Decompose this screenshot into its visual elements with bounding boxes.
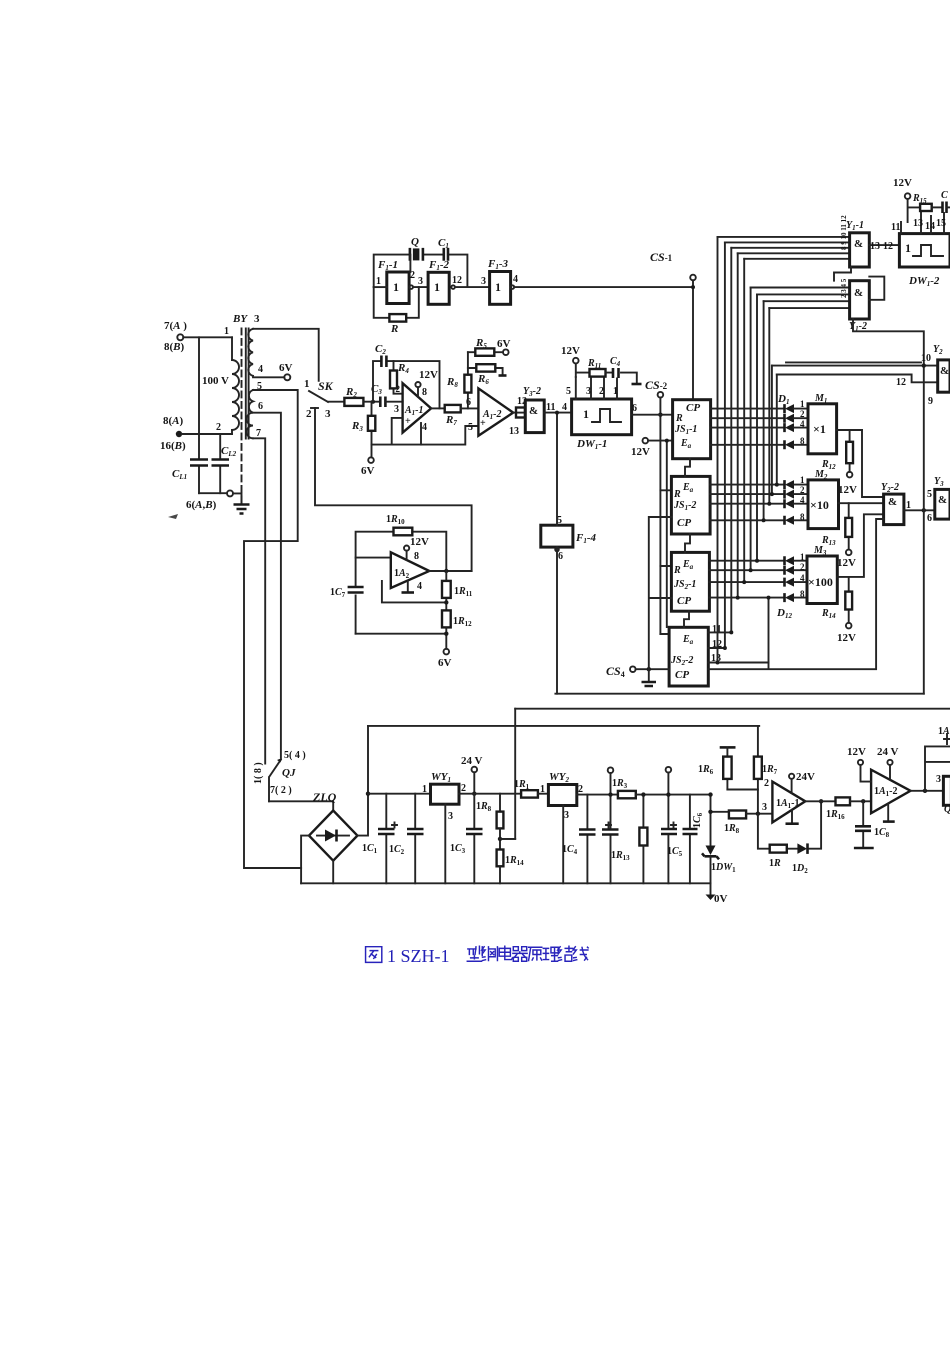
svg-text:M3: M3 [813,545,827,557]
op-amp 1A2 feedback loop [356,532,447,634]
svg-text:C2: C2 [375,343,386,356]
node junction after R2 [371,400,375,404]
bus vertical V7 [756,294,758,560]
wire A1-1 pin4 to bottom rail [420,423,422,445]
svg-text:DW1-2: DW1-2 [908,275,940,288]
svg-text:Y1-1: Y1-1 [846,220,864,232]
wire tap6 long route to bottom left [244,390,301,868]
svg-text:1: 1 [613,386,618,397]
bus vertical V4 [737,253,739,597]
terminal 12V DW1-1 [561,345,590,377]
svg-text:3: 3 [481,276,486,287]
bus vertical V8 [763,301,765,520]
wire Y1-1 output to DW1-2 [869,244,899,246]
svg-text:1: 1 [422,784,427,795]
terminal CS-1 [650,250,696,280]
resistor 1R16 [826,797,871,821]
terminal 24V 1A1-1 [789,771,815,793]
svg-text:JS2-1: JS2-1 [673,579,696,591]
wire ZLQ bottom corner [332,861,334,884]
diodes D9-D12 [785,556,795,602]
svg-text:R7: R7 [445,414,457,427]
svg-text:&: & [940,365,949,377]
svg-text:1A1-2: 1A1-2 [874,786,898,798]
svg-text:1: 1 [583,407,589,421]
svg-text:&: & [888,496,897,508]
svg-text:1C8: 1C8 [874,827,890,839]
svg-text:R15: R15 [912,193,927,205]
wire WY1 output rail [459,793,521,795]
svg-text:12V: 12V [893,177,912,189]
resistor 1R11 [442,571,473,610]
svg-text:11: 11 [891,222,900,233]
wire 1A1-2 output [911,790,944,792]
svg-text:1R14: 1R14 [505,855,524,867]
bus vertical V6 [750,288,752,571]
wire SK arm to R2 [328,401,344,403]
svg-text:JS2-2: JS2-2 [670,655,693,667]
svg-text:1: 1 [800,475,805,485]
terminal 6V transformer tap [253,362,293,380]
svg-text:WY1: WY1 [431,771,451,784]
svg-text:Ea: Ea [680,438,692,450]
svg-text:8 9 10 11 12: 8 9 10 11 12 [840,215,848,250]
wire WY2 output rail [577,794,618,796]
capacitor 1C2 [389,794,424,884]
svg-text:JS1-1: JS1-1 [674,424,697,436]
resistor R4 [390,361,409,394]
svg-text:R8: R8 [446,376,458,389]
capacitor C_L1 [172,460,208,482]
ground [233,493,250,513]
svg-text:&: & [938,494,947,506]
capacitor C top right edge [941,190,950,213]
svg-text:0V: 0V [714,893,728,905]
svg-text:1C1: 1C1 [362,843,378,855]
wire R2 to C3 [363,401,380,403]
gate Y2-1 [933,344,950,392]
svg-text:12V: 12V [847,746,866,758]
resistor 1R8 [724,811,772,836]
svg-text:8: 8 [800,589,805,599]
wire WY1 input rail [368,793,431,795]
svg-text:Y2: Y2 [933,344,943,356]
capacitor unlabeled with terminal [602,767,619,883]
svg-text:BY: BY [232,313,248,325]
svg-text:2: 2 [216,422,221,433]
bus vertical V10 [771,366,773,495]
DW1-1 top pin stubs [566,377,618,399]
svg-text:100 V: 100 V [202,375,229,387]
svg-text:7( 2 ): 7( 2 ) [270,785,292,796]
resistor 1R10 [386,514,412,535]
svg-text:6: 6 [632,403,637,414]
svg-text:4: 4 [800,419,805,429]
svg-text:4: 4 [417,581,422,592]
gate F1-1 [374,255,428,304]
svg-text:1A1-1: 1A1-1 [776,798,800,810]
wire oscillator bottom branch [374,287,419,318]
diodes D1-D4 [785,404,795,449]
ground stub 1A2 pin4 [402,581,423,593]
output rows JS2-1 to diodes [709,561,784,598]
wire jog JS2-1 to JS2-2 [684,611,689,627]
svg-text:5: 5 [566,386,571,397]
wire Y2-2 output to Y3-1 [904,509,935,511]
svg-text:2: 2 [396,384,401,394]
wire output loop up right [925,746,950,790]
svg-text:1C3: 1C3 [450,843,466,855]
svg-text:15: 15 [936,218,946,229]
svg-text:1 SZH-1: 1 SZH-1 [387,946,450,966]
capacitor C2 [375,343,386,367]
terminal 6V below R3 [361,445,375,477]
svg-text:1R: 1R [769,858,781,869]
wire QJ common to ZLQ [269,801,333,810]
svg-text:+: + [405,416,411,427]
wire ZLQ right corner to rails [357,726,368,836]
svg-text:4: 4 [258,364,263,375]
wire feedback divider vertical [500,709,515,839]
bus vertical V1 [717,237,719,663]
svg-text:D1: D1 [777,393,789,406]
svg-text:1C2: 1C2 [389,844,405,856]
svg-text:6: 6 [258,401,263,412]
monostable DW1-2 [899,234,950,288]
resistor 1R14 [497,850,525,884]
wire Y3-2/DW1-1 node down to F1-4 [556,413,558,526]
resistor R14 [821,577,856,644]
wire M2 output to Y2-2 [839,502,884,504]
svg-text:1R8: 1R8 [724,823,740,835]
svg-text:CP: CP [686,402,700,414]
svg-text:&: & [529,405,538,417]
resistor R8 [446,352,471,408]
caption 图1 SZH-1 型继电器原理结线 [366,946,589,966]
svg-text:CS-1: CS-1 [650,250,673,264]
wire jog JS1-1 to JS1-2 [685,459,690,477]
ground CS4 [642,669,657,686]
svg-text:CL1: CL1 [172,468,187,481]
svg-text:5( 4 ): 5( 4 ) [284,750,306,761]
resistor 1R1 [514,779,548,798]
svg-text:6: 6 [927,513,932,524]
svg-text:&: & [854,287,863,299]
monostable DW1-1 [572,399,637,451]
svg-text:10: 10 [921,353,931,364]
wire feedback top branch [373,361,440,408]
wire M1 output to Y2-2 [862,430,884,497]
svg-text:7(A ): 7(A ) [164,320,187,332]
svg-text:CS-2: CS-2 [645,378,668,392]
counter JS2-1 [671,552,709,611]
svg-text:5: 5 [927,489,932,500]
terminal 12V JS [631,438,673,458]
svg-text:F1-1: F1-1 [377,259,398,272]
svg-text:12V: 12V [837,557,856,569]
bus vertical V5 [743,259,745,582]
gate Y3-2 [523,386,555,433]
svg-text:R13: R13 [821,535,836,547]
svg-text:JS1-2: JS1-2 [673,500,696,512]
terminal 12V DW1-2 [893,177,920,222]
terminal CS-2 [645,378,668,398]
resistor R5 [468,337,503,356]
terminal 12V 1A1-2 [847,746,871,782]
svg-text:6V: 6V [361,465,375,477]
resistor R15 [912,193,941,211]
svg-text:24 V: 24 V [461,755,483,767]
svg-text:1R12: 1R12 [453,616,472,628]
capacitor 1C8 [854,801,890,848]
decoder M3 x100 [800,545,837,604]
svg-text:6V: 6V [497,338,511,350]
transformer secondary lower winding [247,390,263,439]
capacitor 1C6 [683,795,705,884]
wire 1A2 bottom rail [356,633,447,635]
capacitor C_L2 [212,434,237,493]
terminal 6V R5 [497,338,511,355]
gate Y1-2 [840,278,869,333]
capacitor 1C7 [330,587,364,599]
svg-text:3: 3 [254,313,260,325]
svg-text:1D2: 1D2 [792,863,808,875]
svg-text:&: & [854,238,863,250]
terminal 12V 1A2 [404,536,429,562]
terminal 24V WY1 [461,755,483,796]
bottom rail of A1 stage [372,426,479,445]
svg-text:24 V: 24 V [877,746,899,758]
svg-text:2: 2 [599,386,604,397]
svg-text:F1-2: F1-2 [428,259,450,272]
svg-text:12V: 12V [410,536,429,548]
svg-text:1R3: 1R3 [612,778,628,790]
svg-text:1: 1 [224,326,229,337]
svg-text:6V: 6V [279,362,293,374]
wire R7 to A1-2 [461,407,479,409]
svg-text:1R8: 1R8 [476,801,492,813]
svg-text:12V: 12V [561,345,580,357]
resistor 1R6 [698,747,758,789]
svg-text:R3: R3 [351,420,363,433]
capacitor 1C1 [362,794,397,884]
svg-text:12V: 12V [631,446,650,458]
svg-text:2: 2 [800,485,805,495]
svg-text:2: 2 [800,562,805,572]
svg-text:12: 12 [883,241,893,252]
transformer core dashed line [241,328,243,503]
bus vertical V3 [730,248,732,633]
wire 0V bottom bus [301,883,710,894]
op-amp 1A2 [391,552,430,588]
feedback loop 1R 1D2 [758,799,823,875]
transformer BY primary terminal 7(A)/8(B) [164,320,187,353]
svg-text:QJ: QJ [282,767,296,779]
svg-text:13: 13 [870,241,880,252]
wire 1A2 output [429,570,471,572]
svg-text:12V: 12V [838,484,857,496]
svg-text:CS4: CS4 [606,664,625,679]
wire tap3 to SK contact1 [253,329,319,381]
resistor R3 [351,402,375,445]
capacitor C4 [606,356,642,384]
wire DW1-1 output to JS1-1 [632,414,673,416]
svg-text:1: 1 [800,552,805,562]
svg-text:M1: M1 [814,393,827,405]
bus vertical V9 [768,308,770,504]
counter JS1-2 [671,476,710,534]
svg-text:1: 1 [905,241,911,255]
terminal 24V 1A1-2 [877,746,899,780]
svg-text:12: 12 [452,275,462,286]
resistor R2 [344,386,363,406]
svg-text:1: 1 [434,280,440,294]
zener diode 1DW1 [702,792,736,883]
wire F1-3 output to CS-1 [514,286,693,288]
svg-text:8: 8 [800,512,805,522]
transformer core double line [246,328,249,438]
resistor R12 [821,430,862,496]
svg-text:F1-4: F1-4 [575,532,597,545]
wire R bus taps to JS blocks [660,490,671,634]
decoder M1 x1 [800,393,837,454]
svg-text:Ea: Ea [682,482,694,494]
svg-text:1R16: 1R16 [826,809,845,821]
resistor 1R3 [612,778,711,798]
gate Y2-2 [881,482,911,525]
regulator WY1 [422,771,466,883]
capacitor C1 [438,237,449,261]
wire Y1-2 bottom route to Y2 region [853,319,924,694]
wire Y1-2 right loop [869,277,884,300]
wire rail branch to 1R8 [711,811,729,813]
svg-text:1DW1: 1DW1 [711,862,736,874]
op-amp A1-1 [394,383,431,433]
resistor R6 [468,364,507,386]
svg-text:1R7: 1R7 [762,764,778,776]
gate Y1-1 [840,215,869,267]
bus vertical V11 [776,375,778,485]
wire jog Y1-1 to Y1-2 [834,267,851,281]
wire SK contact2 down to 1A2 output [315,408,472,571]
svg-text:16(B): 16(B) [160,440,186,452]
resistor R13 [821,503,856,569]
bus vertical V2 [724,242,726,648]
output rows JS1-2 to diodes [710,485,784,521]
svg-text:Ea: Ea [682,559,694,571]
gate F1-4 [541,515,597,562]
wire tap bottom to QJ contact 1(8) [253,438,265,763]
svg-text:R4: R4 [397,362,409,375]
wire CS-2 / R bus [659,398,661,635]
transformer BY primary winding 100V [202,313,260,434]
wire non-inverting input A1-1 [392,418,403,445]
capacitor C3 [371,383,385,407]
svg-text:12V: 12V [419,369,438,381]
svg-text:1: 1 [540,784,545,795]
ground stub 1A1-1 [786,810,799,824]
terminal 6V 1A2 [438,649,452,669]
svg-text:12V: 12V [837,632,856,644]
svg-text:R11: R11 [587,358,601,370]
wire F1-4 output down to frame [556,547,558,694]
gate F1-3 [481,258,518,304]
gate Y3-1 [927,476,950,524]
svg-text:2: 2 [578,784,583,795]
resistor R oscillator [389,314,406,335]
svg-text:Q: Q [411,236,419,248]
wire primary bottom [182,433,232,435]
svg-text:1: 1 [304,378,310,390]
svg-text:3: 3 [762,802,767,813]
output rows JS2-2 going up [708,632,768,662]
svg-text:CL2: CL2 [221,445,237,458]
svg-text:R: R [673,565,681,576]
svg-text:R6: R6 [477,373,489,386]
svg-text:×100: ×100 [808,575,833,589]
svg-text:R2: R2 [345,386,357,399]
capacitor 1C3 [450,794,483,884]
gate Y2-1 input wires [772,362,938,382]
wire A1-2 output to Y3-2 [513,412,525,414]
svg-text:1A2: 1A2 [394,568,410,580]
DW1-2 top pin stubs [891,213,946,234]
wire CS4 bus up to JS CP rows [649,517,672,669]
svg-text:1C6: 1C6 [692,812,704,828]
svg-text:2: 2 [461,783,466,794]
svg-text:12: 12 [896,377,906,388]
svg-text:R: R [673,489,681,500]
svg-text:14: 14 [925,221,935,232]
svg-text:4: 4 [513,274,518,285]
wire CS-1 down to JS1-1 CP [692,280,694,399]
svg-text:1R6: 1R6 [698,764,714,776]
svg-text:R14: R14 [821,608,836,620]
switch SK [304,378,334,420]
svg-text:1: 1 [495,280,501,294]
svg-text:Q: Q [944,804,950,815]
bus bottom junction dots [716,483,779,665]
regulator WY2 [548,771,583,883]
svg-text:ZLQ: ZLQ [312,790,337,804]
svg-text:2: 2 [306,408,312,420]
svg-text:1: 1 [800,399,805,409]
wire top border lower section [515,708,950,710]
svg-text:1( 8 ): 1( 8 ) [253,762,264,784]
svg-text:1C5: 1C5 [667,846,683,858]
svg-text:C4: C4 [610,356,621,368]
svg-text:3: 3 [936,774,941,785]
svg-text:3: 3 [448,811,453,822]
svg-text:3: 3 [564,810,569,821]
svg-text:13: 13 [509,426,519,437]
ground stub 1A1-2 [883,804,895,822]
svg-text:6V: 6V [438,657,452,669]
wire M3 output to Y2-2 [837,514,883,577]
svg-text:6: 6 [466,397,471,408]
op-amp A1-2 [468,388,513,435]
svg-text:4: 4 [422,422,427,433]
svg-text:WY2: WY2 [549,771,570,784]
terminal 8(A)/16(B) [160,415,186,452]
svg-text:6: 6 [558,551,563,562]
wire Y3-2 to DW1-1 [544,412,571,414]
wire left column to C_L1 [198,337,200,493]
resistor 1R13 [611,792,647,883]
svg-text:3: 3 [418,276,423,287]
wire 12V bus vertical [666,441,668,627]
wire ZLQ left corner to 0V bus [301,836,309,884]
